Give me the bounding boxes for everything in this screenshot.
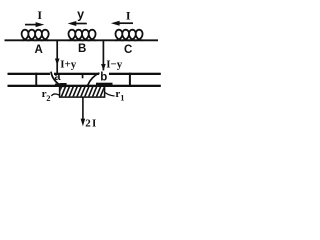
contact stub at track centre: [82, 74, 84, 78]
svg-text:a: a: [54, 71, 61, 83]
current arrow I over A (pointing right): [25, 22, 44, 27]
contact curve at a: [51, 72, 61, 86]
current arrow I over C (pointing left): [111, 21, 133, 26]
svg-text:B: B: [78, 43, 86, 55]
thick contact blob under a: [55, 84, 62, 87]
svg-text:1: 1: [120, 92, 124, 102]
slide-wire track: bottom line: [8, 85, 161, 87]
leader for r2: [51, 94, 59, 96]
current arrow y over B (pointing left): [68, 21, 87, 26]
output wire 2I (down arrow from slider): [82, 98, 84, 120]
arrowhead I-y (down): [101, 64, 106, 71]
svg-text:I: I: [37, 8, 42, 22]
svg-text:y: y: [77, 7, 84, 21]
svg-text:I: I: [126, 8, 131, 22]
svg-text:I−y: I−y: [106, 59, 123, 71]
inductor C (4 loops): [116, 30, 143, 41]
wire: left vertical from node A-B down to point a: [56, 40, 58, 73]
svg-text:2: 2: [46, 93, 50, 103]
svg-text:C: C: [124, 44, 132, 56]
arrowhead 2I: [81, 119, 86, 127]
contact curve at b: [88, 73, 100, 86]
circuit schematic: three coupled coils A,B,C over a slide-wire rheostat: [0, 0, 165, 136]
thick contact blob under b: [96, 83, 113, 87]
track divider right: [129, 73, 131, 87]
svg-text:2I: 2I: [85, 117, 97, 129]
inductor B (4 loops): [69, 30, 96, 41]
inductor A (4 loops): [22, 30, 49, 41]
track divider left: [35, 73, 37, 87]
slider (jockey) hatched box: [57, 83, 109, 98]
svg-text:I+y: I+y: [60, 59, 77, 71]
wire: top horizontal bus: [5, 39, 159, 41]
svg-text:b: b: [100, 71, 107, 83]
arrowhead I+y (down): [55, 59, 60, 66]
svg-text:A: A: [34, 44, 42, 56]
leader for r1: [105, 93, 114, 96]
slide-wire track: top line segments: [8, 73, 51, 75]
wire: right vertical from node B-C down to point b: [102, 40, 104, 70]
